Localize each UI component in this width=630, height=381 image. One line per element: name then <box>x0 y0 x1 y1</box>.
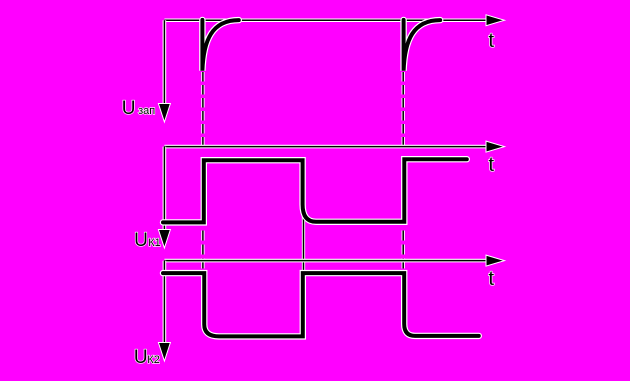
top time axis (U_zap plot) <box>164 18 487 22</box>
dashed timing line t1 (upper segment) <box>201 72 204 146</box>
U_zap trigger spike 1 (drop edge + exponential recovery) <box>202 20 238 71</box>
label U_zap <box>122 98 155 119</box>
bottom time axis arrowhead <box>486 255 505 266</box>
svg-text:К2: К2 <box>147 354 160 366</box>
Uk2 collector waveform <box>163 273 479 336</box>
svg-text:t: t <box>488 29 494 52</box>
middle time axis arrowhead <box>486 141 505 152</box>
bottom voltage axis (downward) <box>163 261 167 351</box>
middle time axis (Uk1 plot) <box>164 145 487 149</box>
svg-text:U: U <box>122 98 136 119</box>
thin connector line t3 linking Uk1 fall to Uk2 rise <box>302 160 305 273</box>
middle voltage axis arrowhead <box>158 230 170 249</box>
top voltage axis arrowhead <box>158 104 170 123</box>
svg-text:К1: К1 <box>148 237 161 249</box>
dashed timing line t1 (lower segment) <box>201 231 204 273</box>
dashed timing line t2 (upper segment) <box>402 72 405 146</box>
dashed timing line t2 (lower segment) <box>402 231 405 273</box>
label Uk2 <box>134 347 160 368</box>
svg-text:U: U <box>134 230 148 251</box>
svg-text:t: t <box>488 153 494 176</box>
Uk1 collector waveform <box>163 159 467 222</box>
bottom voltage axis arrowhead <box>158 343 170 362</box>
bottom time axis (Uk2 plot) <box>164 259 487 263</box>
svg-text:зап: зап <box>138 105 155 117</box>
svg-text:t: t <box>488 267 494 290</box>
top time axis arrowhead <box>486 15 505 26</box>
label Uk1 <box>134 230 161 251</box>
svg-text:U: U <box>134 347 148 368</box>
U_zap trigger spike 2 (drop edge + exponential recovery) <box>404 20 441 71</box>
top voltage axis (downward) <box>163 20 167 112</box>
middle voltage axis (downward) <box>163 147 167 238</box>
